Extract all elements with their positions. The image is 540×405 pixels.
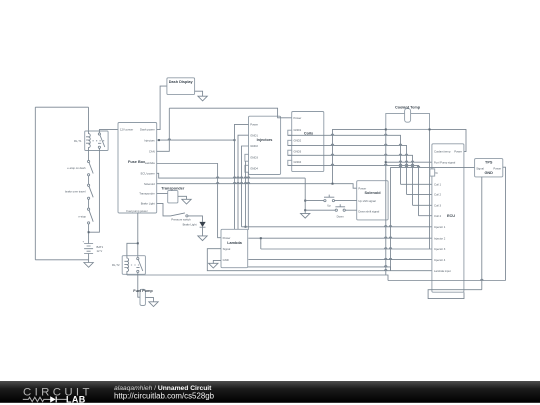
svg-text:Solenoid: Solenoid: [144, 182, 155, 186]
svg-text:Injector 1: Injector 1: [434, 225, 446, 229]
wire coolant left drop: [385, 129, 387, 275]
hop bumps on solenoid row: [216, 182, 250, 183]
dash display U1: [167, 78, 195, 95]
wire CAN riser: [157, 108, 170, 151]
wire lambda gnd stub: [213, 260, 221, 263]
wire inj GND4 drop: [247, 172, 249, 230]
svg-text:e-stop on dash: e-stop on dash: [67, 166, 86, 170]
svg-text:Fuse Box: Fuse Box: [128, 160, 146, 164]
stub coils GND1: [288, 130, 292, 135]
hop bumps on fuel pump signal row: [399, 161, 414, 162]
wire coils GND4 row: [288, 165, 419, 215]
stub coils GND4: [288, 160, 292, 165]
wire left loop left side: [34, 107, 36, 260]
svg-text:Power: Power: [454, 150, 462, 154]
fuse box FB1: [118, 123, 157, 214]
ECU U8: [432, 144, 464, 292]
ground brake light: [198, 236, 207, 241]
svg-text:GND4: GND4: [250, 167, 258, 171]
wire TPS gnd row: [428, 290, 482, 299]
svg-text:ECU: ECU: [447, 214, 455, 218]
hop bump on injectors feed row at CAN riser: [168, 139, 171, 140]
label lambda pins: [223, 236, 231, 262]
wire ECU power row jog: [157, 173, 306, 178]
svg-text:12 V: 12 V: [97, 249, 103, 253]
TPS U9: [475, 159, 503, 177]
wire injectors feed row: [157, 139, 235, 141]
svg-text:ECU power: ECU power: [141, 172, 155, 176]
svg-text:Lambda: Lambda: [145, 161, 155, 165]
label ECU pins: [434, 150, 462, 273]
svg-text:Brake Light: Brake Light: [141, 202, 155, 206]
wire TPS signal row through ECU: [391, 166, 475, 168]
wire inj GND2 drop: [242, 146, 249, 227]
hop bump on through row: [481, 279, 484, 280]
wire row ECU injector 4: [248, 259, 432, 261]
hop bumps on ECU power row: [216, 177, 250, 178]
svg-text:Power: Power: [223, 236, 231, 240]
wire brake light row: [157, 203, 171, 216]
svg-text:GND4: GND4: [294, 160, 302, 164]
node junction: [88, 231, 90, 233]
wire injectors power drop: [235, 124, 249, 229]
label TPS pins: [476, 160, 501, 175]
wire buttons common drop: [304, 178, 306, 213]
wire to down button: [305, 209, 335, 211]
hop bumps on TPS signal row: [399, 166, 420, 167]
svg-text:Coil 2: Coil 2: [434, 193, 442, 197]
svg-text:Coils: Coils: [304, 131, 313, 135]
wire TPS gnd drop: [481, 177, 483, 290]
coils U4: [292, 112, 324, 172]
label coils pins: [294, 116, 302, 164]
stub coils GND2: [288, 140, 292, 145]
svg-text:Coolant Temp: Coolant Temp: [395, 106, 421, 110]
node coolant left: [385, 128, 387, 130]
svg-text:Down: Down: [337, 214, 345, 218]
svg-text:TPS: TPS: [485, 160, 493, 164]
LED brake light D1: [199, 222, 205, 227]
svg-text:Dash Display: Dash Display: [169, 80, 194, 84]
ground buttons: [301, 213, 310, 218]
wire row ECU coil 1: [401, 183, 432, 185]
wire row ECU injector 3: [261, 248, 432, 250]
wire relay switch to pump: [138, 274, 140, 297]
wire lambda signal loop to ECU lambda input: [207, 249, 432, 271]
svg-text:Fuel Pump: Fuel Pump: [133, 289, 153, 293]
svg-text:Pressure switch: Pressure switch: [171, 218, 191, 222]
svg-text:GND2: GND2: [250, 144, 258, 148]
hop on lambda bottom row: [384, 266, 387, 267]
svg-text:Brake Light: Brake Light: [183, 223, 197, 227]
wire to up button: [305, 200, 324, 202]
switch brake over travel: [88, 184, 94, 199]
stub injectors GND4: [245, 165, 249, 172]
svg-text:GND1: GND1: [250, 133, 258, 137]
wire transponder to ground: [178, 196, 187, 199]
wire down button to solenoid: [345, 209, 356, 211]
transponder U2: [168, 191, 178, 203]
svg-text:Power: Power: [358, 186, 366, 190]
ground fuel pump: [149, 302, 158, 307]
svg-text:Up shift signal: Up shift signal: [358, 199, 376, 203]
wire relay coil row: [127, 275, 388, 281]
svg-text:Signal: Signal: [223, 247, 231, 251]
svg-text:GND: GND: [223, 258, 229, 262]
wire fuel pump power drop: [137, 213, 139, 256]
injectors U3: [249, 116, 281, 174]
svg-text:Dash power: Dash power: [140, 128, 155, 132]
battery BAT1: [83, 241, 94, 256]
stub injectors GND3: [245, 154, 249, 161]
svg-text:e-stop: e-stop: [78, 215, 86, 219]
switch e-stop on dash: [88, 160, 94, 176]
wire pump to ground: [145, 298, 153, 302]
wire TPS power drop: [503, 167, 506, 280]
wire jog injector 3: [260, 238, 262, 249]
node coil top: [137, 242, 139, 244]
wire row ECU coil 2: [407, 193, 432, 195]
ground lambda: [209, 263, 218, 268]
wire left loop top: [35, 106, 88, 108]
svg-text:GND3: GND3: [294, 149, 302, 153]
wire coils GND3 row: [288, 155, 413, 205]
wire coil top L: [127, 243, 138, 255]
svg-text:RL,T1: RL,T1: [74, 139, 82, 143]
label injectors pins: [250, 123, 258, 171]
solenoid U6: [357, 181, 388, 220]
fuel pump M1: [140, 289, 145, 305]
wire dash power riser: [157, 86, 167, 130]
wire pressure switch to LED: [188, 216, 203, 222]
svg-text:Coil 3: Coil 3: [434, 203, 442, 207]
svg-text:GND1: GND1: [294, 128, 302, 132]
node coolant right: [429, 128, 431, 130]
relay RL,T2: [122, 256, 145, 275]
footer bar: [0, 381, 540, 403]
wire battery to ground: [88, 255, 90, 263]
svg-text:Injector 2: Injector 2: [434, 236, 446, 240]
node up row: [304, 200, 306, 202]
label solenoid pins: [358, 186, 379, 213]
node down row: [304, 209, 306, 211]
wire row through ECU to TPS power: [388, 280, 506, 282]
wire row ECU injector 1: [242, 226, 432, 228]
node link bottom: [332, 183, 334, 185]
ground transponder: [182, 199, 191, 204]
node injectors row: [158, 139, 160, 141]
svg-text:Power: Power: [250, 123, 258, 127]
svg-text:12V power: 12V power: [120, 128, 133, 132]
wire LED to ground: [202, 227, 204, 236]
lambda U5: [221, 229, 248, 267]
svg-text:brake over travel: brake over travel: [65, 190, 86, 194]
wire coolant right drop: [429, 129, 431, 249]
wire between switches: [88, 176, 90, 184]
wire left loop bottom: [35, 259, 88, 261]
svg-text:Power: Power: [493, 166, 501, 170]
coolant temp sensor U7: [386, 109, 430, 130]
svg-text:Injector 3: Injector 3: [434, 247, 446, 251]
node inj3 join: [245, 226, 247, 228]
svg-text:RL,T2: RL,T2: [112, 263, 120, 267]
svg-text:Up: Up: [327, 203, 331, 207]
wire coolant row to ECU power: [430, 129, 467, 151]
svg-text:BAT1: BAT1: [97, 245, 104, 249]
wire transponder row: [157, 193, 168, 195]
wire relay coil bottom to switch chain: [88, 151, 90, 162]
svg-text:Fuel pump power: Fuel pump power: [126, 209, 147, 213]
label fuse box pins: [120, 128, 155, 213]
switch pressure switch: [171, 213, 188, 217]
svg-text:Injectors: Injectors: [257, 138, 273, 142]
wire coil bottom to row: [126, 273, 128, 276]
wire lambda bottom row: [248, 267, 391, 271]
stub ECU tilt: [430, 169, 435, 176]
svg-text:Lambda: Lambda: [227, 241, 242, 245]
logo resistor diode line: [23, 397, 67, 401]
svg-text:GND: GND: [484, 171, 493, 175]
svg-text:Power: Power: [294, 116, 302, 120]
wire dash display to ground: [195, 91, 203, 96]
wire solenoid row: [157, 184, 357, 189]
stub coils GND3: [288, 150, 292, 155]
wire relay switch bottom down to chain node: [89, 151, 100, 233]
wire relay switch to fuse box 12V power: [99, 130, 118, 131]
hop bumps on coils gnd rows: [331, 134, 414, 165]
svg-text:http://circuitlab.com/cs528gb: http://circuitlab.com/cs528gb: [114, 392, 215, 401]
switch e-stop: [88, 208, 94, 224]
svg-text:LAB: LAB: [66, 395, 86, 405]
svg-text:Down shift signal: Down shift signal: [358, 210, 379, 214]
svg-text:Coil 1: Coil 1: [434, 182, 442, 186]
wire fuel pump signal row: [386, 161, 432, 163]
wire row ECU injector 2: [248, 237, 432, 239]
wire lambda input riser: [390, 167, 392, 270]
node jog: [260, 237, 262, 239]
svg-text:Lambda input: Lambda input: [434, 269, 451, 273]
wire lambda feed: [157, 164, 221, 238]
svg-text:Injector 4: Injector 4: [434, 258, 446, 262]
svg-text:+: +: [83, 241, 85, 244]
svg-text:GND3: GND3: [250, 156, 258, 160]
svg-text:Coolant temp: Coolant temp: [434, 150, 451, 154]
wire row ECU coil 4: [419, 215, 432, 217]
ground battery: [84, 263, 93, 268]
wire switch chain to battery: [88, 224, 90, 242]
wire between switches 2: [88, 199, 90, 208]
svg-text:Solenoid: Solenoid: [364, 191, 381, 195]
hop bumps on ECU injector rows: [384, 225, 391, 270]
ground dash display: [198, 96, 207, 101]
wire inj GND3 drop: [245, 161, 247, 227]
wire coolant to solenoid rail link: [333, 129, 386, 183]
svg-text:Fuel Pump signal: Fuel Pump signal: [434, 160, 456, 164]
svg-text:CAN: CAN: [149, 150, 155, 154]
wire inj GND1 drop: [238, 135, 249, 230]
svg-text:Signal: Signal: [476, 166, 484, 170]
svg-text:Injectors: Injectors: [144, 138, 155, 142]
svg-text:GND2: GND2: [294, 139, 302, 143]
svg-text:Transponder: Transponder: [161, 187, 185, 191]
wire loop to relay coil: [88, 107, 90, 131]
wire CAN top line to coils power: [169, 108, 291, 118]
node fuel pump signal: [385, 161, 387, 163]
relay RL,T1: [85, 131, 108, 151]
wire row ECU coil 3: [413, 204, 432, 206]
svg-text:Coil 4: Coil 4: [434, 214, 442, 218]
wire coils GND2 row: [288, 145, 407, 194]
wire coils GND1 row: [288, 135, 401, 184]
svg-text:Transponder: Transponder: [139, 192, 155, 196]
button Down SW5: [335, 204, 345, 211]
button Up SW4: [324, 195, 335, 202]
wire up button to solenoid: [335, 200, 357, 202]
